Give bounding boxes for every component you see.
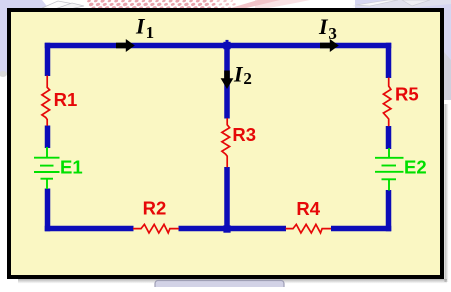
wire: top horizontal <box>45 43 392 49</box>
svg-text:E2: E2 <box>404 157 427 178</box>
svg-text:3: 3 <box>328 24 337 43</box>
svg-text:R1: R1 <box>54 89 78 110</box>
current arrow I3 <box>320 39 339 52</box>
svg-text:1: 1 <box>146 23 155 42</box>
resistor R4 <box>286 224 331 233</box>
svg-text:2: 2 <box>243 69 252 88</box>
current arrow I1 <box>116 39 135 52</box>
current arrow I2 <box>221 71 234 90</box>
wire: left vertical upper (to R1) <box>45 43 51 76</box>
svg-text:I: I <box>233 62 244 87</box>
wire: bottom left segment (to R2) <box>45 226 134 232</box>
svg-text:R3: R3 <box>232 124 256 145</box>
wire: bottom middle segment (R2 to R4) <box>179 226 287 232</box>
svg-text:I: I <box>318 14 329 39</box>
svg-text:I: I <box>135 14 146 39</box>
resistor R1 <box>42 76 50 126</box>
wire: left vertical lower (E1 to bottom) <box>45 189 51 232</box>
wire: right vertical upper (to R5) <box>386 43 392 78</box>
node: bottom junction <box>223 225 230 232</box>
svg-text:R5: R5 <box>395 84 419 105</box>
wire: left vertical between R1 and E1 <box>45 126 51 149</box>
wire: right vertical between R5 and E2 <box>386 126 392 149</box>
wire: middle vertical upper (junction to R3) <box>224 46 230 119</box>
svg-text:R2: R2 <box>143 198 167 219</box>
wire: middle vertical lower (R3 to bottom junction) <box>224 167 230 229</box>
wire: bottom right segment (R4 to right corner) <box>331 226 391 232</box>
battery E1 <box>34 147 60 189</box>
wire: right vertical lower (E2 to bottom) <box>386 190 392 231</box>
resistor R2 <box>133 224 179 233</box>
battery E2 <box>375 148 404 191</box>
resistor R3 <box>222 118 230 167</box>
resistor R5 <box>383 78 391 127</box>
svg-text:E1: E1 <box>60 157 83 178</box>
node: top junction <box>223 40 230 49</box>
svg-text:R4: R4 <box>296 198 320 219</box>
